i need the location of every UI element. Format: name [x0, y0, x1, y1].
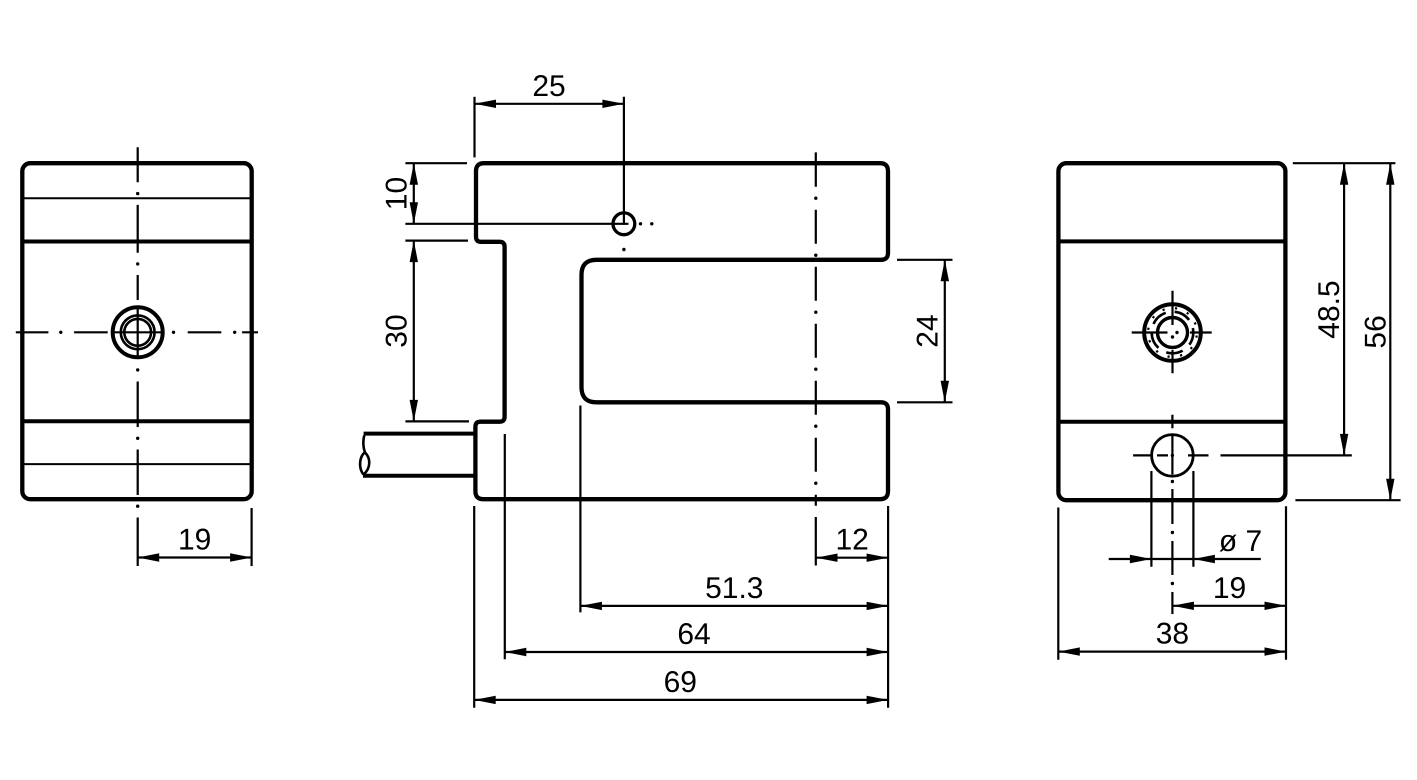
- svg-text:51.3: 51.3: [705, 572, 763, 605]
- left view: vertical centerline: [137, 147, 139, 566]
- right view: cable hole vertical centerline: [1171, 415, 1173, 614]
- left view: upper thick edge line: [22, 240, 251, 244]
- dimension 64: dimension line: [505, 651, 888, 653]
- right view: right extension line (19/38): [1285, 506, 1287, 660]
- right view: lower thick edge line: [1058, 420, 1285, 424]
- svg-text:25: 25: [532, 70, 565, 103]
- svg-text:64: 64: [677, 618, 710, 651]
- dimension 25: left extension line: [473, 97, 475, 158]
- dimension 38: dimension line: [1058, 650, 1286, 652]
- dimension 69: dimension line: [474, 699, 888, 701]
- dimension diameter 7: dimension line: [1109, 558, 1261, 560]
- dimension 19 (left view): dimension line: [138, 556, 252, 558]
- dimension 19 (right view): dimension line: [1172, 605, 1286, 607]
- svg-text:48.5: 48.5: [1313, 280, 1346, 338]
- shared right extension line (12/51.3/64/69): [887, 506, 889, 708]
- dimension 30: top extension line: [405, 240, 468, 242]
- right view: body outline: [1058, 163, 1285, 500]
- middle view: cable bottom edge: [363, 474, 474, 478]
- left view: horizontal centerline: [16, 331, 258, 333]
- dimension 51.3: arrows: [580, 602, 602, 610]
- svg-text:69: 69: [664, 666, 697, 699]
- dimension diameter 7: right extension line: [1192, 471, 1194, 567]
- svg-text:10: 10: [380, 177, 413, 210]
- dimension 19 (right view): arrows: [1172, 602, 1194, 610]
- svg-text:38: 38: [1156, 618, 1189, 651]
- dimension diameter 7: arrows: [1130, 555, 1152, 563]
- right view: threaded hole dotted circle: [1148, 308, 1197, 357]
- svg-text:24: 24: [911, 314, 944, 347]
- dimension 64: arrows: [505, 648, 527, 656]
- dimension 56: arrows: [1386, 163, 1394, 185]
- dimension 64: left extension line: [504, 434, 506, 659]
- middle view: reference hole horizontal centerline: [405, 223, 628, 225]
- dimension 48.5: dimension line: [1343, 163, 1345, 455]
- left view: threaded hole: [113, 307, 163, 357]
- dimension 38: left extension line: [1057, 508, 1059, 660]
- right view: upper thick edge line: [1058, 239, 1285, 243]
- svg-text:56: 56: [1359, 315, 1392, 348]
- svg-text:ø 7: ø 7: [1219, 525, 1262, 558]
- right view: threaded hole vertical centerline: [1171, 291, 1173, 374]
- dimension 12: arrows: [816, 554, 838, 562]
- dimension 25: dimension line: [475, 103, 624, 105]
- dimension 30: arrows: [410, 241, 418, 263]
- dimension 30: bottom extension line: [405, 420, 469, 422]
- middle view: body outline: [475, 163, 888, 499]
- dimension 19 (left view): arrows: [138, 553, 160, 561]
- dimension 48.5: hole extension line: [1221, 454, 1352, 456]
- svg-text:19: 19: [178, 524, 211, 557]
- left view: lower thick edge line: [22, 419, 251, 423]
- dimension 56: bottom extension line: [1295, 499, 1400, 501]
- dimension 24: top extension line: [897, 259, 953, 261]
- dimension 51.3: dimension line: [580, 605, 888, 607]
- left view: body outline: [22, 163, 251, 499]
- dimension 24: dimension line: [944, 260, 946, 403]
- left view: upper thin edge line: [22, 197, 251, 199]
- middle view: vertical centerline: [815, 152, 817, 565]
- dimension 12: dimension line: [816, 557, 888, 559]
- right view: cable hole horizontal centerline: [1133, 454, 1208, 456]
- dimension 56: dimension line: [1389, 163, 1391, 500]
- right view: threaded hole outer circle: [1144, 304, 1201, 361]
- right view: threaded hole inner circle: [1158, 318, 1188, 348]
- dimension 10: arrows: [410, 163, 418, 185]
- middle view: reference hole: [613, 213, 635, 235]
- right view: cable hole: [1152, 435, 1194, 477]
- dimension 25: arrows: [475, 100, 497, 108]
- left view: lower thin edge line: [22, 463, 251, 465]
- dimension 30: dimension line: [413, 241, 415, 422]
- middle view: reference hole vertical centerline: [623, 97, 625, 225]
- dimension 69: left extension line: [473, 506, 475, 708]
- dimension 10: top extension line: [405, 162, 467, 164]
- shared top extension line (48.5/56): [1293, 162, 1396, 164]
- dimension 51.3: left extension line: [579, 406, 581, 613]
- right view: threaded hole thread dash circle: [1152, 312, 1194, 354]
- svg-text:30: 30: [380, 314, 413, 347]
- dimension 24: arrows: [941, 260, 949, 282]
- dimension 38: arrows: [1058, 647, 1080, 655]
- middle view: cable break symbol: [363, 435, 365, 452]
- dimension 69: arrows: [474, 696, 496, 704]
- right view: threaded hole horizontal centerline: [1132, 331, 1212, 333]
- dimension 19 (left view): extension line: [251, 508, 253, 566]
- dimension diameter 7: left extension line: [1150, 471, 1152, 567]
- svg-text:19: 19: [1213, 572, 1246, 605]
- dimension 24: bottom extension line: [897, 401, 953, 403]
- middle view: cable top edge: [364, 432, 474, 436]
- dimension 10: dimension line: [413, 163, 415, 224]
- dimension 48.5: arrows: [1340, 163, 1348, 185]
- svg-text:12: 12: [836, 524, 869, 557]
